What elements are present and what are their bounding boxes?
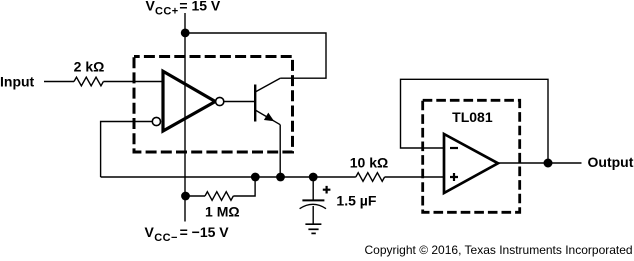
inverting input bubble (152, 117, 160, 125)
wire capacitor top lead (312, 177, 314, 200)
wire VCC+ lead (184, 13, 186, 33)
svg-text:= 15 V: = 15 V (179, 0, 221, 14)
svg-text:TL081: TL081 (452, 109, 493, 125)
wire comparator output to transistor base (224, 101, 255, 103)
wire emitter to bus (279, 125, 281, 177)
wire op-amp output (498, 162, 582, 164)
wire 10k to op-amp plus input (385, 176, 444, 178)
svg-text:CC−: CC− (154, 232, 178, 244)
transistor Q1 emitter arrow (264, 113, 274, 122)
wire VCC vertical (VCC+ to VCC-) (184, 33, 186, 222)
label VCC+ = 15 V (146, 0, 221, 17)
resistor R 1M zigzag (205, 192, 233, 201)
svg-text:V: V (145, 224, 155, 240)
svg-text:Output: Output (588, 154, 634, 170)
transistor Q1 base bar (254, 85, 256, 122)
svg-text:= −15 V: = −15 V (180, 224, 230, 240)
svg-text:V: V (146, 0, 156, 14)
op-amp plus sign (450, 173, 458, 181)
comparator dashed box (134, 57, 293, 153)
wire resistor to comparator input (103, 81, 161, 83)
ground (305, 224, 321, 233)
resistor R 10k zigzag (356, 173, 385, 182)
svg-text:Input: Input (0, 74, 35, 90)
svg-text:10 kΩ: 10 kΩ (350, 155, 388, 171)
TL081 dashed box (423, 100, 520, 212)
svg-text:1 MΩ: 1 MΩ (205, 204, 240, 220)
wire input lead (44, 81, 74, 83)
node 1M left dot (181, 192, 190, 201)
wire feedback loop around TL081 (401, 79, 549, 163)
capacitor C1 top plate (302, 199, 324, 201)
node 1M right bus dot (251, 173, 260, 182)
output bubble (216, 97, 224, 105)
capacitor plus sign (323, 186, 331, 194)
capacitor C1 bottom curved plate (300, 204, 326, 208)
op-amp minus sign (450, 147, 458, 149)
wire feedback from inverting bubble (101, 122, 153, 178)
node output dot (544, 159, 553, 168)
transistor Q1 emitter (255, 110, 280, 125)
label VCC- = -15 V (145, 224, 230, 244)
op-amp U1 triangle (444, 134, 498, 193)
svg-text:CC+: CC+ (155, 5, 179, 17)
node VCC+ junction dot (181, 29, 190, 38)
wire bottom bus (101, 176, 356, 178)
svg-text:Copyright © 2016, Texas Instru: Copyright © 2016, Texas Instruments Inco… (365, 243, 633, 257)
svg-text:2 kΩ: 2 kΩ (74, 59, 105, 75)
op-amp comparator triangle (163, 71, 215, 131)
wire capacitor bottom lead (312, 206, 314, 224)
node capacitor bus dot (309, 173, 318, 182)
transistor Q1 collector (255, 78, 280, 92)
wire VCC+ rail to collector loop (185, 33, 326, 78)
svg-text:1.5 µF: 1.5 µF (336, 193, 376, 209)
resistor R 2k zigzag (74, 77, 103, 86)
resistor 1M left lead (186, 195, 206, 197)
wire 1M right lead to bus (233, 177, 255, 196)
node emitter bus dot (276, 173, 285, 182)
